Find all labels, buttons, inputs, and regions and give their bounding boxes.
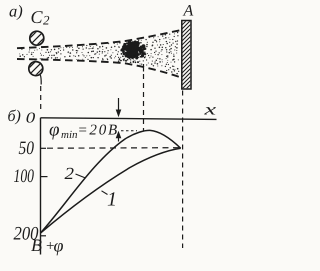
svg-text:φ: φ	[49, 120, 60, 141]
dashed line from plate A down	[182, 91, 184, 249]
dashed line from C2 down to origin	[40, 86, 42, 110]
capacitor plate upper (circle, hatched)	[28, 28, 46, 48]
svg-text:100: 100	[14, 166, 35, 187]
dashed 50V gridline	[47, 147, 181, 150]
dimension arrow down (to x axis)	[118, 98, 120, 111]
svg-text:50: 50	[19, 138, 35, 159]
dashed line from crossover down to curve	[143, 64, 145, 72]
beam top border (dashed)	[17, 30, 182, 48]
capacitor plate lower (circle, hatched)	[27, 58, 45, 78]
beam bottom border (dashed)	[17, 59, 182, 78]
svg-text:x: x	[203, 102, 216, 119]
electron beam stipple	[19, 32, 179, 75]
screen plate A (hatched)	[179, 9, 194, 96]
tick 100	[41, 176, 48, 178]
svg-text:а): а)	[9, 2, 23, 21]
svg-text:C: C	[31, 7, 44, 27]
lead below lower plate	[40, 75, 41, 85]
svg-text:=20В: =20В	[78, 123, 120, 139]
svg-text:2: 2	[43, 13, 50, 28]
curve 2 (with space charge, potential minimum)	[41, 130, 181, 233]
dotted 20V level line	[121, 130, 137, 132]
tick 50	[41, 147, 47, 149]
svg-text:0: 0	[26, 111, 36, 127]
dimension arrow up (to 20V level)	[118, 136, 120, 142]
curve 1 (monotonic)	[41, 148, 181, 233]
svg-text:1: 1	[107, 189, 117, 211]
svg-text:min: min	[61, 129, 78, 141]
svg-text:φ: φ	[54, 236, 64, 256]
svg-text:б): б)	[8, 108, 21, 125]
tick 200	[41, 235, 47, 237]
y axis (potential, downward)	[40, 118, 42, 255]
beam crossover blob	[118, 40, 146, 63]
svg-text:В: В	[31, 235, 42, 255]
svg-text:2: 2	[65, 164, 75, 183]
svg-text:A: A	[183, 3, 194, 20]
x axis	[41, 118, 217, 120]
